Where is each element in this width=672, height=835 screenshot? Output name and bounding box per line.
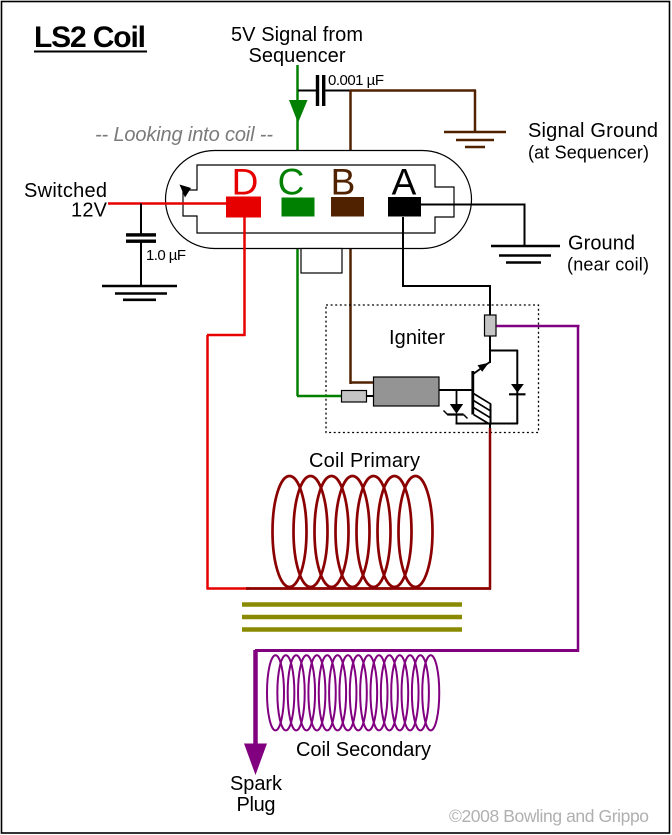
svg-text:A: A xyxy=(392,162,417,203)
svg-text:(near coil): (near coil) xyxy=(567,255,649,275)
igniter module box (dashed) xyxy=(326,305,539,433)
svg-text:C: C xyxy=(278,162,305,203)
svg-text:©2008 Bowling and Grippo: ©2008 Bowling and Grippo xyxy=(449,806,649,826)
svg-text:(at Sequencer): (at Sequencer) xyxy=(528,143,649,163)
wire: emitter out (black stub) xyxy=(489,424,491,431)
net label: 5V Signal from Sequencer xyxy=(231,24,363,67)
wire: maroon igniter to primary xyxy=(489,428,492,590)
svg-text:D: D xyxy=(232,162,259,203)
capacitor C2 1.0uF plates xyxy=(126,233,156,243)
svg-text:LS2 Coil: LS2 Coil xyxy=(34,21,146,54)
svg-text:-- Looking into coil --: -- Looking into coil -- xyxy=(95,124,273,146)
wire: black pin A to ground xyxy=(420,204,526,206)
wire: green horizontal into igniter xyxy=(297,395,343,398)
coil secondary winding L2 xyxy=(267,655,439,730)
net label: Spark Plug xyxy=(230,773,283,816)
wire: black pin A down to igniter xyxy=(402,217,404,287)
connector shell (outer oval) xyxy=(166,151,472,249)
diode D2 (flyback) xyxy=(509,350,526,424)
pin A xyxy=(388,197,421,217)
wire: base lead xyxy=(439,389,473,391)
wire: brown horizontal to signal ground xyxy=(350,89,476,92)
wire: brown into driver module xyxy=(351,381,375,384)
connector bottom tab xyxy=(301,249,342,274)
wire: R2 to driver module xyxy=(367,395,375,397)
resistor R1 (collector feed, gray) xyxy=(485,315,497,336)
svg-text:Plug: Plug xyxy=(237,794,276,816)
connector inner outline xyxy=(183,165,454,233)
net label: Signal Ground (at Sequencer) xyxy=(528,120,658,163)
wire: green to capacitor link xyxy=(298,90,316,92)
pin D xyxy=(226,197,261,218)
wire: red long vertical to primary xyxy=(206,335,209,590)
svg-text:Signal Ground: Signal Ground xyxy=(528,120,658,142)
core laminations xyxy=(242,605,462,630)
spark plug arrow xyxy=(244,744,267,776)
wire: purple top of secondary xyxy=(255,649,579,652)
svg-text:5V Signal from: 5V Signal from xyxy=(231,24,363,46)
resistor R2 (signal input, gray) xyxy=(342,391,367,403)
svg-text:Coil Secondary: Coil Secondary xyxy=(296,739,431,761)
svg-text:1.0 µF: 1.0 µF xyxy=(146,247,186,264)
coil primary winding L1 xyxy=(246,476,491,589)
svg-text:Sequencer: Sequencer xyxy=(249,45,346,67)
arrow on 5V signal wire xyxy=(289,100,308,123)
ground: near coil xyxy=(491,246,560,263)
net label: Switched 12V xyxy=(24,180,108,222)
wire: 1.0uF capacitor bottom lead xyxy=(140,243,142,287)
svg-text:Igniter: Igniter xyxy=(389,327,445,349)
svg-text:Ground: Ground xyxy=(568,233,635,255)
wire: emitter rail xyxy=(456,423,519,425)
ground: signal ground (at sequencer) xyxy=(444,132,506,147)
wire: 1.0uF capacitor top lead xyxy=(140,204,142,235)
wire: 5V signal (green) vertical into pin C xyxy=(296,65,299,396)
svg-text:Coil Primary: Coil Primary xyxy=(309,450,420,472)
net label: Ground (near coil) xyxy=(567,233,649,275)
wire: brown vertical drop to ground symbol xyxy=(474,90,477,132)
wire: red jog left xyxy=(207,334,246,337)
svg-text:12V: 12V xyxy=(71,200,108,222)
wire: purple from R1 to secondary xyxy=(497,325,580,328)
wire: red into primary bottom xyxy=(207,587,250,590)
wire: purple drop to spark plug xyxy=(253,650,258,745)
wire: switched 12V red into pin D xyxy=(108,202,228,205)
pin B xyxy=(331,197,364,217)
ground: 12V filter ground xyxy=(102,286,177,300)
wire: brown vertical through pin B xyxy=(349,90,352,384)
capacitor C1 0.001uF plates xyxy=(316,75,326,106)
pin C xyxy=(282,198,315,217)
driver module U1 (gray box) xyxy=(374,377,440,406)
wire: red from pin D down xyxy=(243,217,246,336)
wire: capacitor to brown junction xyxy=(325,90,351,92)
title LS2 Coil xyxy=(34,21,147,54)
keying arrow xyxy=(180,185,192,198)
svg-text:B: B xyxy=(331,162,356,203)
svg-text:Spark: Spark xyxy=(230,773,283,795)
transistor Q1 (IGBT) xyxy=(473,336,519,425)
svg-text:0.001 µF: 0.001 µF xyxy=(328,72,384,89)
zener diode D1 xyxy=(444,391,468,425)
